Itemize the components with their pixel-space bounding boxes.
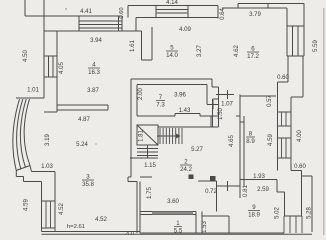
staircase step 1	[137, 148, 158, 150]
ink speck	[95, 143, 96, 144]
svg-text:3: 3	[86, 174, 90, 181]
svg-text:3.96: 3.96	[174, 92, 186, 99]
wall step vertical x128	[127, 6, 129, 18]
wall bump	[210, 176, 216, 181]
window 5.59 bottom tick	[287, 55, 304, 57]
svg-text:7.3: 7.3	[156, 102, 165, 109]
window 5.59 left line	[286, 26, 288, 56]
svg-text:1.07: 1.07	[221, 101, 233, 108]
hall wall y181	[198, 180, 217, 182]
window right lower bottom tick	[278, 157, 292, 159]
wall room8 inner x244	[243, 116, 245, 186]
wall step y192	[277, 191, 285, 193]
window left bottom bottom tick	[42, 227, 56, 229]
svg-text:5.59: 5.59	[312, 39, 319, 51]
wc right wall	[228, 216, 230, 233]
room 7 outer step v1	[211, 79, 213, 87]
room 7 outer left	[130, 79, 132, 177]
entrance steps top tick	[284, 215, 302, 217]
window 4.41 left tick	[78, 16, 80, 31]
svg-text:8.9: 8.9	[246, 138, 255, 145]
shaft bottom	[142, 59, 153, 61]
svg-text:4.59: 4.59	[267, 133, 274, 145]
window 4.14 left tick	[155, 6, 157, 18]
hall wall top y105	[57, 104, 108, 106]
window right upper top tick	[278, 111, 292, 113]
wc top wall	[202, 215, 229, 217]
wall step vertical x136	[135, 18, 137, 32]
svg-text:4.14: 4.14	[166, 0, 178, 6]
svg-text:1.01: 1.01	[27, 87, 39, 94]
svg-text:18.9: 18.9	[248, 212, 260, 219]
svg-text:4.0: 4.0	[126, 232, 135, 236]
bay step vertical A	[15, 171, 17, 177]
svg-text:4.09: 4.09	[179, 26, 191, 33]
wall vertical x211	[210, 116, 212, 127]
svg-text:4.41: 4.41	[80, 8, 92, 15]
bay window arc 3	[20, 99, 26, 167]
room 7 outer top	[131, 78, 212, 80]
svg-text:h=2.61: h=2.61	[67, 224, 85, 230]
wall notch horizontal 0.60	[278, 81, 289, 83]
window 4.50 line1	[48, 56, 50, 77]
window 5.59 top tick	[287, 25, 304, 27]
svg-text:3.94: 3.94	[90, 37, 102, 44]
wall right outer x303	[302, 56, 304, 97]
wall room6-8 y96	[240, 95, 276, 97]
window 4.50 bottom tick	[44, 76, 57, 78]
window right lower top tick	[278, 137, 292, 139]
svg-text:2.59: 2.59	[257, 186, 269, 193]
svg-text:4: 4	[92, 62, 96, 69]
room 1 top wall upper	[140, 211, 196, 213]
svg-text:4.52: 4.52	[58, 202, 65, 214]
wall end cap vertical x218	[217, 6, 219, 19]
svg-text:1.50: 1.50	[217, 107, 224, 119]
notch vertical x128	[127, 177, 129, 182]
wall right inner x287 upper	[286, 8, 288, 26]
bottom wall inner right	[140, 232, 284, 234]
svg-text:1: 1	[176, 220, 180, 227]
wall porch left vertical	[24, 0, 26, 16]
shaft left wall	[141, 31, 143, 60]
ink speck	[65, 8, 66, 9]
svg-text:2: 2	[184, 159, 188, 166]
svg-text:8: 8	[249, 131, 253, 138]
corridor wall outer x218.5	[218, 87, 220, 127]
wall horizontal y171.5	[32, 171, 56, 173]
wall vertical x137 lower	[136, 182, 138, 234]
svg-text:5.24: 5.24	[76, 141, 88, 148]
svg-text:1.03: 1.03	[41, 163, 53, 170]
room 9 top wall	[240, 179, 277, 181]
svg-text:4.52: 4.52	[95, 216, 107, 223]
window 4.52 left wall	[45, 201, 47, 228]
svg-text:0.60: 0.60	[294, 164, 306, 170]
wall outer x312	[311, 176, 313, 232]
svg-text:1.93: 1.93	[253, 173, 265, 180]
room 7 inner bottom left	[137, 115, 175, 117]
staircase step 3	[137, 155, 158, 157]
svg-text:3.60: 3.60	[167, 198, 179, 205]
corridor tick y99	[213, 98, 219, 100]
svg-text:4.05: 4.05	[58, 61, 65, 73]
wall stub y94.5	[216, 94, 234, 96]
wall top inner (rooms 5-6)	[136, 17, 218, 19]
wall right inner x277 long	[277, 82, 279, 171]
svg-text:1.61: 1.61	[129, 39, 136, 51]
room 1 right wall B	[201, 212, 203, 234]
wall vertical x140 lower	[139, 182, 141, 234]
wall left bottom stub B	[54, 228, 56, 232]
room 7 inner right	[206, 85, 208, 105]
hall wall end cap	[107, 105, 109, 110]
window 5.59 line1	[292, 26, 294, 56]
door tick y122	[240, 121, 244, 123]
window 4.41 line1	[79, 20, 122, 22]
room 2 top wall	[158, 126, 219, 128]
svg-text:0.60: 0.60	[119, 7, 125, 18]
door tick y116	[236, 115, 240, 117]
wall end block	[189, 175, 194, 180]
wall left bottom stub A	[41, 228, 43, 232]
wall x284.5	[284, 192, 286, 216]
window 4.41 line2	[79, 24, 122, 26]
svg-text:4.50: 4.50	[22, 49, 29, 61]
staircase diagonal	[137, 125, 158, 145]
shaft right wall	[151, 27, 153, 60]
staircase step 2	[137, 151, 158, 153]
window left bottom left line	[41, 201, 43, 228]
window 4.50 line2	[52, 56, 54, 77]
bay bottom cap	[16, 166, 30, 171]
door tick x227.5	[227, 90, 229, 99]
room 7 inner bottom right	[200, 115, 211, 117]
svg-text:9: 9	[252, 204, 256, 211]
svg-text:5.27: 5.27	[191, 146, 203, 153]
roof notch right tick	[267, 4, 269, 9]
svg-text:24.2: 24.2	[180, 166, 192, 173]
door lintel 1.07	[207, 104, 219, 106]
window right upper bottom tick	[278, 125, 292, 127]
room 1 partition hatch	[152, 212, 193, 215]
staircase mid rail	[147, 145, 149, 158]
wall top outer (room 4)	[25, 15, 122, 17]
svg-text:1.15: 1.15	[144, 162, 156, 169]
scan edge artifact	[323, 8, 325, 235]
staircase upper flight box	[137, 125, 158, 145]
niche left vertical	[174, 114, 176, 117]
window right wall upper	[281, 112, 283, 126]
svg-text:1.43: 1.43	[179, 107, 191, 114]
wall horizontal y182	[24, 181, 42, 183]
wall vertical x41.5	[41, 182, 43, 202]
corridor tick y116	[211, 115, 219, 117]
staircase bottom	[130, 157, 158, 159]
svg-text:14.0: 14.0	[166, 52, 178, 59]
svg-text:0.81: 0.81	[242, 184, 249, 196]
entrance steps bottom-right	[283, 216, 285, 233]
staircase direction arrow	[157, 135, 179, 137]
door tick x213	[212, 100, 214, 109]
wall vertical x216.5	[216, 181, 218, 212]
wall vertical x55	[54, 172, 56, 202]
svg-text:4.00: 4.00	[296, 129, 303, 141]
svg-text:4.62: 4.62	[233, 44, 240, 56]
room 7 outer step h	[212, 86, 219, 88]
window 4.41 right tick B	[121, 16, 123, 31]
bay step horizontal	[16, 176, 23, 178]
room 7 inner left	[136, 85, 138, 117]
bay window arc 4	[24, 99, 30, 166]
room 1 right wall A	[195, 212, 197, 234]
svg-text:7: 7	[159, 94, 163, 101]
window 4.41 line3	[79, 27, 122, 29]
window 4.41 right tick A	[118, 16, 120, 31]
svg-text:16.3: 16.3	[88, 69, 100, 76]
svg-text:4.87: 4.87	[78, 116, 90, 123]
hall wall y186	[217, 185, 241, 187]
wall x277 to step	[276, 180, 278, 193]
svg-text:4.59: 4.59	[23, 198, 30, 210]
svg-text:1.81: 1.81	[139, 130, 145, 142]
svg-text:35.8: 35.8	[82, 181, 94, 188]
step horizontal y176	[302, 175, 313, 177]
svg-text:5: 5	[170, 45, 174, 52]
window 4.14 right tick	[187, 6, 189, 18]
step 0.60 horizontal	[291, 170, 302, 172]
window 5.59 right line	[303, 26, 305, 56]
window 4.14 line1	[156, 9, 188, 11]
svg-text:0.60: 0.60	[277, 75, 289, 81]
svg-text:0.64: 0.64	[220, 8, 226, 20]
window 4.14 line2	[156, 12, 188, 14]
svg-text:3.19: 3.19	[44, 133, 51, 145]
window 5.59 line2	[297, 26, 299, 56]
hall wall y177	[140, 176, 152, 178]
svg-text:3.27: 3.27	[196, 44, 203, 56]
niche right vertical	[199, 114, 201, 117]
wall left inner vertical	[56, 31, 58, 112]
bay inner joint	[30, 166, 32, 172]
bay step vertical B	[23, 177, 25, 182]
notch bottom	[128, 181, 137, 183]
bay window arc 2	[17, 99, 23, 169]
wall short y112	[44, 111, 57, 113]
roof notch top	[238, 3, 304, 5]
wall top inner (room 4)	[44, 30, 142, 32]
wall left outer vertical	[43, 0, 45, 98]
svg-text:1.75: 1.75	[146, 186, 153, 198]
svg-text:17.2: 17.2	[247, 53, 259, 60]
wall right outer x291	[290, 97, 292, 171]
svg-text:6: 6	[251, 46, 255, 53]
window 4.50 top tick	[44, 55, 57, 57]
wall right outer x304 upper	[303, 4, 305, 27]
svg-text:4.65: 4.65	[228, 134, 235, 146]
svg-text:0.72: 0.72	[205, 188, 217, 195]
bay window arc 1	[13, 99, 20, 171]
wall above bay	[16, 97, 44, 99]
roof notch left tick	[237, 4, 239, 9]
svg-text:3.87: 3.87	[87, 87, 99, 94]
wall room2-8 x240	[239, 95, 241, 199]
niche top	[175, 113, 200, 115]
window left bottom top tick	[42, 200, 56, 202]
svg-text:3.79: 3.79	[249, 11, 261, 18]
wall top outer (rooms 5-6)	[128, 5, 218, 7]
wall jog horizontal y97	[291, 96, 303, 98]
window left bottom right line	[54, 201, 56, 228]
wall right inner x288	[287, 56, 289, 82]
wall top outer segment	[222, 7, 287, 9]
window right wall lower	[281, 138, 283, 158]
wall vertical x301.5	[301, 171, 303, 217]
svg-text:2.00: 2.00	[137, 87, 144, 99]
door tick x227.5 lower	[227, 181, 229, 191]
notch top	[128, 176, 131, 178]
svg-text:5.02: 5.02	[275, 207, 281, 219]
room 1 top wall lower	[140, 214, 196, 216]
room 7 inner top	[137, 84, 207, 86]
bottom wall inner left	[42, 231, 141, 233]
corridor wall inner x212.5	[212, 99, 214, 127]
staircase lower flight hatch	[159, 128, 161, 144]
bottom wall outer	[42, 233, 313, 235]
svg-text:1.53: 1.53	[202, 221, 208, 233]
hall wall bottom y110	[57, 109, 108, 111]
